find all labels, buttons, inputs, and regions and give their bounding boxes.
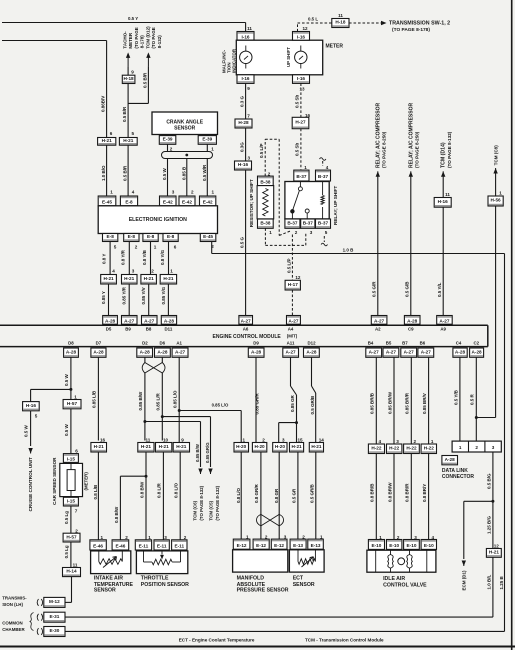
svg-text:H-57: H-57 <box>66 534 77 539</box>
svg-text:1: 1 <box>212 190 215 195</box>
svg-text:9: 9 <box>181 438 184 443</box>
svg-text:A-27: A-27 <box>241 319 252 324</box>
svg-text:H-16: H-16 <box>26 403 37 408</box>
svg-text:2: 2 <box>151 269 154 274</box>
svg-text:0.85 Y/G: 0.85 Y/G <box>161 286 166 304</box>
svg-text:RESISTOR; UP SHIFT: RESISTOR; UP SHIFT <box>249 179 254 227</box>
svg-text:1: 1 <box>459 445 462 450</box>
svg-text:0.8 GR: 0.8 GR <box>274 488 279 503</box>
svg-text:E-10: E-10 <box>371 543 381 548</box>
svg-text:E-8: E-8 <box>167 234 175 239</box>
svg-text:H-18: H-18 <box>335 20 346 25</box>
svg-text:3: 3 <box>282 438 285 443</box>
svg-text:0.5 Y/B: 0.5 Y/B <box>453 389 458 405</box>
svg-text:0.5 B/G: 0.5 B/G <box>487 473 492 489</box>
svg-text:5: 5 <box>325 230 328 235</box>
svg-text:0.5 GR/B: 0.5 GR/B <box>309 483 314 503</box>
svg-text:E-10: E-10 <box>389 543 399 548</box>
svg-text:RELAY; UP SHIFT: RELAY; UP SHIFT <box>333 186 338 225</box>
svg-text:E-8: E-8 <box>128 234 136 239</box>
svg-text:0.85 BR/B: 0.85 BR/B <box>370 392 375 414</box>
svg-text:H-21: H-21 <box>176 444 187 449</box>
svg-text:INDICATOR: INDICATOR <box>232 48 237 73</box>
svg-text:H-56: H-56 <box>491 198 502 203</box>
svg-text:B7: B7 <box>402 340 408 345</box>
svg-text:(TO PAGE: (TO PAGE <box>134 27 139 48</box>
svg-text:3: 3 <box>172 190 175 195</box>
svg-text:1: 1 <box>110 190 113 195</box>
svg-text:0.85 Y: 0.85 Y <box>101 291 106 304</box>
svg-text:E-42: E-42 <box>163 200 173 205</box>
svg-text:H-21: H-21 <box>163 276 174 281</box>
svg-text:(TO PAGE 8-132): (TO PAGE 8-132) <box>447 131 452 168</box>
svg-text:6: 6 <box>174 245 177 250</box>
svg-text:12: 12 <box>302 26 308 31</box>
svg-text:0.8 Y: 0.8 Y <box>101 254 106 264</box>
svg-text:H-20: H-20 <box>275 444 286 449</box>
svg-text:1.25 B/G: 1.25 B/G <box>487 515 492 534</box>
svg-text:I-16: I-16 <box>297 35 305 40</box>
svg-text:ECM (D1): ECM (D1) <box>462 570 467 591</box>
svg-text:H-27: H-27 <box>295 120 306 125</box>
svg-text:0.5 G/B: 0.5 G/B <box>405 281 410 297</box>
svg-text:A-28: A-28 <box>140 349 151 354</box>
svg-text:A-27: A-27 <box>175 349 186 354</box>
svg-text:4: 4 <box>326 165 329 170</box>
svg-text:0.5 W: 0.5 W <box>64 373 69 386</box>
svg-text:H-22: H-22 <box>389 445 400 450</box>
svg-text:E-30: E-30 <box>49 628 59 633</box>
svg-text:0.5 B/R: 0.5 B/R <box>142 72 147 88</box>
svg-text:E-11: E-11 <box>139 544 149 549</box>
svg-text:H-22: H-22 <box>424 445 435 450</box>
svg-text:5: 5 <box>114 245 117 250</box>
svg-text:SION (LH): SION (LH) <box>2 602 23 607</box>
svg-text:POSITION SENSOR: POSITION SENSOR <box>141 582 189 588</box>
svg-text:E-10: E-10 <box>424 543 434 548</box>
svg-text:A-27: A-27 <box>124 319 135 324</box>
svg-text:E-45: E-45 <box>203 234 213 239</box>
svg-text:B6: B6 <box>420 340 426 345</box>
svg-text:9: 9 <box>247 86 250 91</box>
svg-text:(TO PAGE 8-250): (TO PAGE 8-250) <box>415 131 420 168</box>
svg-text:0.5 GR: 0.5 GR <box>291 488 296 503</box>
svg-text:2: 2 <box>262 438 265 443</box>
svg-text:A-27: A-27 <box>374 319 385 324</box>
svg-text:M-12: M-12 <box>49 599 60 604</box>
svg-text:2: 2 <box>191 190 194 195</box>
svg-text:0.5 W: 0.5 W <box>64 423 69 436</box>
svg-text:2: 2 <box>125 535 128 540</box>
svg-text:0.5 W: 0.5 W <box>162 167 167 180</box>
svg-text:E-11: E-11 <box>157 544 167 549</box>
svg-text:CRUISE CONTROL UNIT: CRUISE CONTROL UNIT <box>28 457 33 511</box>
svg-text:A-27: A-27 <box>286 349 297 354</box>
svg-text:D7: D7 <box>96 340 102 345</box>
svg-text:A-28: A-28 <box>455 349 466 354</box>
svg-text:H-21: H-21 <box>104 276 115 281</box>
svg-text:(TO PAGE 8-132): (TO PAGE 8-132) <box>215 485 220 520</box>
svg-text:1: 1 <box>304 165 307 170</box>
svg-text:TCM (C5): TCM (C5) <box>209 500 214 520</box>
svg-text:0.8 B/W: 0.8 B/W <box>139 481 144 498</box>
svg-text:SENSOR: SENSOR <box>174 126 196 132</box>
svg-text:E-46: E-46 <box>93 544 103 549</box>
svg-text:I-16: I-16 <box>241 76 249 81</box>
svg-text:0.86B/V: 0.86B/V <box>101 96 106 112</box>
svg-text:0.5 W/R: 0.5 W/R <box>202 164 207 181</box>
svg-text:1: 1 <box>170 269 173 274</box>
svg-text:H-22: H-22 <box>406 445 417 450</box>
svg-text:I-15: I-15 <box>67 457 75 462</box>
svg-text:7: 7 <box>247 114 250 119</box>
svg-text:SENSOR: SENSOR <box>94 588 116 594</box>
svg-text:1.0 B/O: 1.0 B/O <box>101 165 106 181</box>
svg-text:0.5 Y: 0.5 Y <box>128 16 138 21</box>
svg-text:A6: A6 <box>243 327 249 332</box>
svg-text:0.85 B: 0.85 B <box>181 166 186 180</box>
svg-text:C2: C2 <box>473 340 479 345</box>
svg-text:H-16: H-16 <box>238 162 249 167</box>
svg-text:0.8 BR/R: 0.8 BR/R <box>405 483 410 502</box>
svg-text:B5: B5 <box>386 340 392 345</box>
svg-text:I-16: I-16 <box>241 35 249 40</box>
svg-text:0.5 G: 0.5 G <box>240 236 245 248</box>
svg-text:0.8 L/O: 0.8 L/O <box>174 482 179 498</box>
svg-text:TCM (C6): TCM (C6) <box>193 500 198 520</box>
svg-text:E-10: E-10 <box>407 543 417 548</box>
svg-text:B-38: B-38 <box>260 180 271 185</box>
svg-text:H-16: H-16 <box>438 199 449 204</box>
svg-text:12: 12 <box>295 275 301 280</box>
svg-text:ELECTRONIC IGNITION: ELECTRONIC IGNITION <box>129 217 187 223</box>
svg-text:SENSOR: SENSOR <box>293 582 315 588</box>
svg-text:1.0 B: 1.0 B <box>343 248 355 253</box>
svg-text:0.5 Y/L: 0.5 Y/L <box>437 282 442 297</box>
svg-text:A11: A11 <box>287 340 295 345</box>
svg-text:H-21: H-21 <box>123 138 134 143</box>
svg-text:2: 2 <box>295 230 298 235</box>
svg-text:D11: D11 <box>164 327 172 332</box>
svg-text:H-21: H-21 <box>124 276 135 281</box>
svg-text:3: 3 <box>310 230 313 235</box>
svg-text:D5: D5 <box>106 327 112 332</box>
svg-text:0.5 B/R: 0.5 B/R <box>122 106 127 122</box>
svg-text:A-28: A-28 <box>407 319 418 324</box>
svg-text:0.5 B/R: 0.5 B/R <box>123 165 128 181</box>
svg-text:0.85 GR/G: 0.85 GR/G <box>205 442 210 463</box>
svg-text:A-28: A-28 <box>445 457 456 462</box>
svg-text:D8: D8 <box>68 340 74 345</box>
svg-text:(TO PAGE 8-132): (TO PAGE 8-132) <box>199 485 204 520</box>
svg-text:B-38: B-38 <box>260 220 271 225</box>
svg-text:11: 11 <box>338 13 343 18</box>
svg-text:0.85 L/R: 0.85 L/R <box>156 392 161 410</box>
svg-text:0.85 BR/R: 0.85 BR/R <box>405 392 410 414</box>
svg-text:IDLE AIR: IDLE AIR <box>383 576 405 582</box>
svg-text:E-11: E-11 <box>174 544 184 549</box>
svg-text:A9: A9 <box>440 327 446 332</box>
svg-text:0.5 Lg: 0.5 Lg <box>64 545 69 558</box>
svg-text:H-21: H-21 <box>94 444 105 449</box>
svg-text:A-28: A-28 <box>251 349 262 354</box>
svg-text:CONTROL VALVE: CONTROL VALVE <box>383 582 427 588</box>
svg-text:3: 3 <box>492 445 495 450</box>
svg-text:1: 1 <box>499 191 502 196</box>
svg-text:13: 13 <box>299 87 305 92</box>
svg-text:A-28: A-28 <box>66 349 77 354</box>
svg-text:D12: D12 <box>307 340 316 345</box>
svg-text:CRANK ANGLE: CRANK ANGLE <box>166 119 203 125</box>
svg-text:E-45: E-45 <box>102 200 112 205</box>
svg-text:METER: METER <box>326 43 344 49</box>
svg-text:A-27: A-27 <box>288 319 299 324</box>
svg-text:0.85 B/W: 0.85 B/W <box>195 443 200 462</box>
svg-text:A4: A4 <box>288 327 294 332</box>
svg-text:0.8 BR/B: 0.8 BR/B <box>370 483 375 502</box>
svg-text:TRANSMISSION SW-1, 2: TRANSMISSION SW-1, 2 <box>389 20 450 26</box>
svg-text:A2: A2 <box>375 327 381 332</box>
svg-text:C9: C9 <box>408 327 414 332</box>
svg-text:TRANSMIS-: TRANSMIS- <box>2 595 27 600</box>
svg-text:0.3G: 0.3G <box>240 142 245 152</box>
svg-text:B-37: B-37 <box>318 174 329 179</box>
svg-text:(TO PAGE 8-178): (TO PAGE 8-178) <box>392 27 430 33</box>
svg-text:C4: C4 <box>456 340 462 345</box>
svg-text:THROTTLE: THROTTLE <box>141 576 169 582</box>
svg-text:0.5 Lg: 0.5 Lg <box>64 511 69 524</box>
svg-text:1.25 B: 1.25 B <box>499 575 504 589</box>
svg-text:0.85 Y/V: 0.85 Y/V <box>141 287 146 304</box>
svg-text:0.85 Y/R: 0.85 Y/R <box>122 286 127 304</box>
svg-text:RELAY; A/C COMPRESSOR: RELAY; A/C COMPRESSOR <box>375 103 381 168</box>
svg-text:10: 10 <box>163 438 169 443</box>
svg-text:(TO PAGE 8-250): (TO PAGE 8-250) <box>382 131 387 168</box>
svg-text:A-27: A-27 <box>404 349 415 354</box>
svg-text:0.8 BR/Y: 0.8 BR/Y <box>422 484 427 502</box>
svg-text:PRESSURE SENSOR: PRESSURE SENSOR <box>237 588 289 594</box>
svg-text:3: 3 <box>132 269 135 274</box>
svg-text:0.8 B/W: 0.8 B/W <box>114 506 119 523</box>
svg-text:0.5 W: 0.5 W <box>24 424 29 437</box>
svg-text:D9: D9 <box>253 340 259 345</box>
svg-text:0.3 G: 0.3 G <box>240 95 245 107</box>
svg-text:ECT - Engine Coolant Temperatu: ECT - Engine Coolant Temperature <box>179 638 255 643</box>
svg-text:E-12: E-12 <box>237 543 247 548</box>
svg-text:1.0 B/L: 1.0 B/L <box>486 574 491 589</box>
svg-text:3: 3 <box>248 156 251 161</box>
svg-text:A1: A1 <box>176 340 182 345</box>
svg-text:A-28: A-28 <box>164 319 175 324</box>
svg-text:8-178): 8-178) <box>139 35 144 49</box>
svg-text:TCM (D12): TCM (D12) <box>146 26 151 49</box>
svg-text:1: 1 <box>243 438 246 443</box>
svg-text:A-27: A-27 <box>144 319 155 324</box>
svg-text:0.85 BR/W: 0.85 BR/W <box>387 391 392 414</box>
svg-text:0.85 B/W: 0.85 B/W <box>138 391 143 411</box>
svg-text:H-14: H-14 <box>66 569 77 574</box>
svg-text:A-27: A-27 <box>386 349 397 354</box>
svg-text:0.85 BR/V: 0.85 BR/V <box>422 393 427 414</box>
svg-text:E-39: E-39 <box>163 137 173 142</box>
svg-text:A-28: A-28 <box>157 349 168 354</box>
svg-text:0.85 L/O: 0.85 L/O <box>212 403 229 408</box>
svg-text:H-18: H-18 <box>124 76 135 81</box>
svg-text:E-8: E-8 <box>147 234 155 239</box>
svg-text:E-12: E-12 <box>274 543 284 548</box>
svg-text:E-12: E-12 <box>256 543 266 548</box>
svg-text:H-20: H-20 <box>236 444 247 449</box>
svg-text:B9: B9 <box>125 327 131 332</box>
svg-text:TCM - Transmission Control Mod: TCM - Transmission Control Module <box>305 638 384 643</box>
svg-text:E-46: E-46 <box>115 544 125 549</box>
svg-text:0.5 Sb: 0.5 Sb <box>295 142 300 156</box>
svg-text:2: 2 <box>170 147 173 152</box>
svg-text:H-21: H-21 <box>141 444 152 449</box>
svg-text:D2: D2 <box>142 340 148 345</box>
svg-text:E-8: E-8 <box>125 200 133 205</box>
svg-text:TACHO-: TACHO- <box>123 31 128 49</box>
svg-text:(METER): (METER) <box>83 472 88 491</box>
svg-text:H-28: H-28 <box>238 120 249 125</box>
svg-text:0.5 L/P: 0.5 L/P <box>286 258 291 273</box>
svg-text:0.8 BR/W: 0.8 BR/W <box>387 482 392 502</box>
svg-text:0.85 GR/R: 0.85 GR/R <box>254 392 259 414</box>
svg-text:E-31: E-31 <box>49 614 59 619</box>
svg-text:I-16: I-16 <box>297 76 305 81</box>
svg-text:15: 15 <box>297 438 303 443</box>
svg-text:4: 4 <box>132 190 135 195</box>
svg-text:H-20: H-20 <box>255 444 266 449</box>
svg-text:11: 11 <box>247 26 252 31</box>
svg-text:H-21: H-21 <box>292 444 303 449</box>
svg-text:A-28: A-28 <box>472 349 483 354</box>
svg-text:E-42: E-42 <box>182 200 192 205</box>
svg-text:12: 12 <box>494 544 500 549</box>
svg-text:B-37: B-37 <box>287 220 298 225</box>
svg-text:0.5 Sb: 0.5 Sb <box>294 94 299 108</box>
svg-text:B-37: B-37 <box>303 220 314 225</box>
svg-text:TCM (D14): TCM (D14) <box>441 142 447 168</box>
svg-text:1: 1 <box>211 147 214 152</box>
svg-text:(TO PAGE: (TO PAGE <box>151 27 156 48</box>
svg-text:ECT: ECT <box>293 576 304 582</box>
svg-text:E-39: E-39 <box>202 137 212 142</box>
svg-text:2: 2 <box>184 535 187 540</box>
svg-text:0.8 L/O: 0.8 L/O <box>236 487 241 503</box>
svg-text:5: 5 <box>132 131 135 136</box>
svg-text:2: 2 <box>135 245 138 250</box>
svg-text:4: 4 <box>112 269 115 274</box>
svg-text:B4: B4 <box>368 340 374 345</box>
svg-text:H-17: H-17 <box>288 282 299 287</box>
svg-text:B8: B8 <box>146 327 152 332</box>
svg-text:0.8 GR/R: 0.8 GR/R <box>254 483 259 503</box>
svg-text:RELAY; A/C COMPRESSOR: RELAY; A/C COMPRESSOR <box>408 103 414 168</box>
svg-text:0.5 R: 0.5 R <box>470 393 475 405</box>
svg-text:I-15: I-15 <box>67 498 75 503</box>
svg-text:E-8: E-8 <box>107 234 115 239</box>
svg-text:11: 11 <box>445 192 450 197</box>
svg-text:CHAMBER: CHAMBER <box>2 627 25 632</box>
svg-text:9: 9 <box>131 70 134 75</box>
svg-text:0.85 L/B: 0.85 L/B <box>92 390 97 408</box>
svg-text:CONNECTOR: CONNECTOR <box>442 474 475 480</box>
svg-text:6: 6 <box>110 131 113 136</box>
svg-text:0.85 L/O: 0.85 L/O <box>173 390 178 408</box>
svg-text:METER: METER <box>128 32 133 49</box>
svg-text:A-27: A-27 <box>421 349 432 354</box>
svg-text:A-27: A-27 <box>369 349 380 354</box>
svg-text:0.8 L/R: 0.8 L/R <box>157 482 162 498</box>
svg-text:H-21: H-21 <box>144 276 155 281</box>
svg-text:H-21: H-21 <box>159 444 170 449</box>
svg-text:0.5 G/R: 0.5 G/R <box>372 281 377 297</box>
svg-text:H-57: H-57 <box>67 401 78 406</box>
svg-text:E-13: E-13 <box>311 543 321 548</box>
svg-text:E-13: E-13 <box>293 543 303 548</box>
svg-text:6: 6 <box>75 449 78 454</box>
svg-text:0.5 GR/B: 0.5 GR/B <box>310 395 315 415</box>
svg-text:A-28: A-28 <box>93 349 104 354</box>
svg-text:1: 1 <box>269 230 272 235</box>
svg-text:H-21: H-21 <box>102 138 113 143</box>
svg-text:A-27: A-27 <box>439 319 450 324</box>
svg-text:E-42: E-42 <box>203 200 213 205</box>
svg-text:11: 11 <box>145 438 150 443</box>
svg-text:H-21: H-21 <box>311 444 322 449</box>
svg-text:0.8 L/B: 0.8 L/B <box>93 484 98 500</box>
svg-text:1: 1 <box>154 245 157 250</box>
svg-text:14: 14 <box>319 438 325 443</box>
svg-text:UP SHIFT: UP SHIFT <box>286 47 291 67</box>
svg-text:7: 7 <box>75 509 78 514</box>
svg-text:5: 5 <box>35 414 38 419</box>
svg-text:ENGINE CONTROL MODULE: ENGINE CONTROL MODULE <box>213 334 282 340</box>
svg-text:0.5 L: 0.5 L <box>308 17 318 22</box>
svg-text:COMMON: COMMON <box>2 621 23 626</box>
svg-text:0.85 GR: 0.85 GR <box>290 394 295 412</box>
svg-text:A-28: A-28 <box>105 319 116 324</box>
svg-text:MANIFOLD: MANIFOLD <box>237 576 265 582</box>
svg-text:INTAKE AIR: INTAKE AIR <box>94 576 123 582</box>
svg-text:B-37: B-37 <box>296 174 307 179</box>
svg-text:B-37: B-37 <box>318 220 329 225</box>
svg-text:0.8 Y/B: 0.8 Y/B <box>142 249 147 265</box>
svg-text:0.8 Y/R: 0.8 Y/R <box>121 249 126 265</box>
svg-text:H-21: H-21 <box>489 550 500 555</box>
svg-text:H-22: H-22 <box>371 445 382 450</box>
svg-text:0.8 Y/G: 0.8 Y/G <box>160 249 165 265</box>
svg-text:CAR SPEED SENSOR: CAR SPEED SENSOR <box>52 457 57 505</box>
svg-text:D6: D6 <box>159 340 165 345</box>
svg-text:A-28: A-28 <box>306 349 317 354</box>
svg-text:TCM (C8): TCM (C8) <box>493 145 498 166</box>
svg-text:2: 2 <box>475 445 478 450</box>
svg-text:2: 2 <box>75 528 78 533</box>
svg-text:8-132): 8-132) <box>157 35 162 49</box>
svg-text:16: 16 <box>100 438 106 443</box>
svg-text:(M/T): (M/T) <box>287 333 298 338</box>
svg-text:0.5 L/P: 0.5 L/P <box>259 143 264 158</box>
